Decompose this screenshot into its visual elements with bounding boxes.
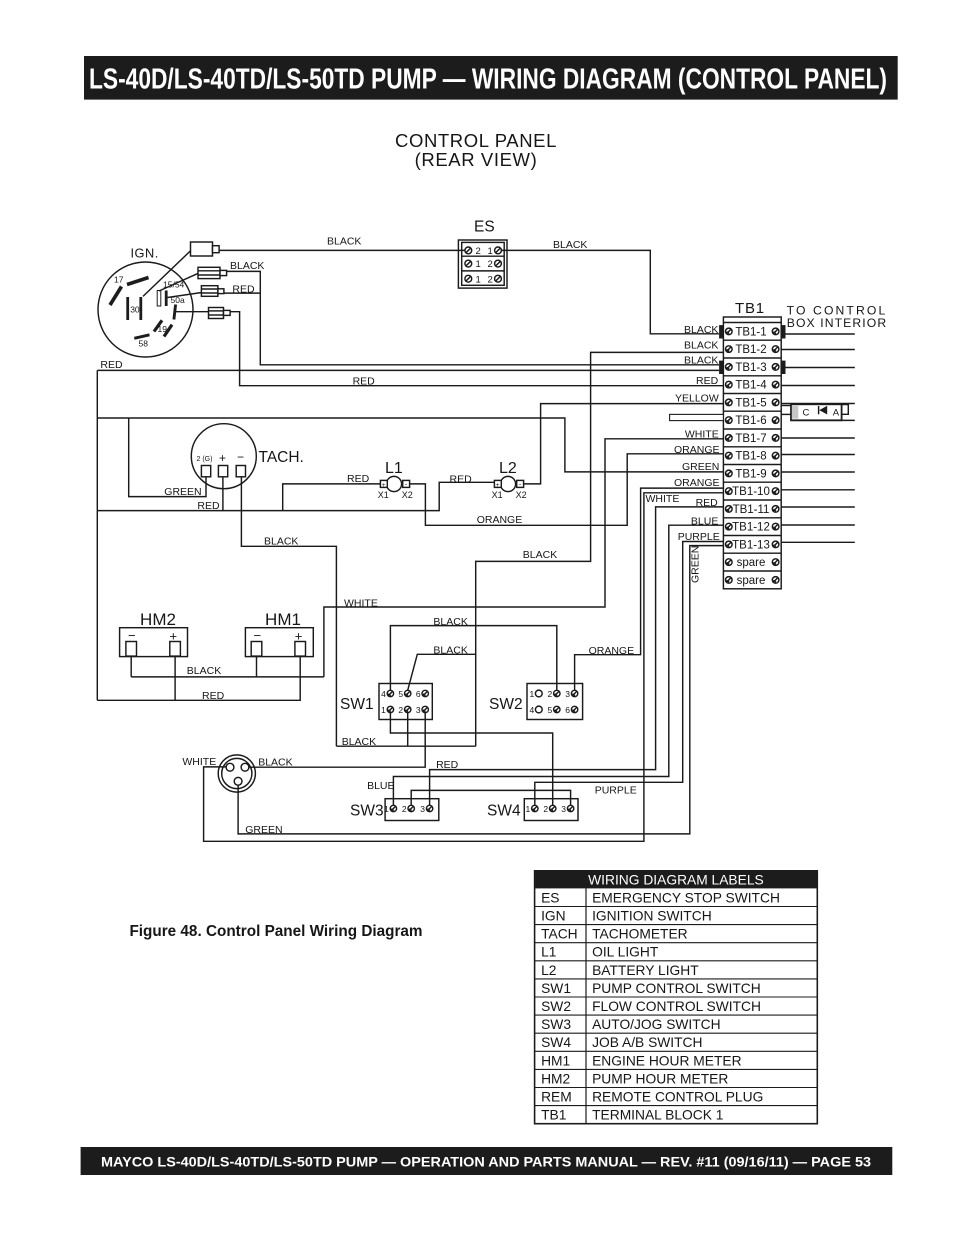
svg-text:TB1-8: TB1-8	[735, 451, 766, 463]
svg-text:WHITE: WHITE	[182, 756, 216, 768]
svg-text:SW2: SW2	[489, 696, 523, 713]
svg-text:CONTROL PANEL: CONTROL PANEL	[395, 130, 557, 151]
pump control switch SW1	[340, 684, 432, 720]
svg-text:L1: L1	[541, 945, 556, 960]
wire GREEN REM to TB1-13	[238, 546, 723, 834]
wire BLACK SW1 pin4 to SW2 pin2	[390, 626, 556, 691]
TB1-3 side tabs	[719, 361, 723, 374]
svg-text:LS-40D/LS-40TD/LS-50TD PUMP —: LS-40D/LS-40TD/LS-50TD PUMP — WIRING DIA…	[89, 64, 887, 96]
svg-text:L2: L2	[499, 460, 517, 477]
svg-text:WIRING DIAGRAM LABELS: WIRING DIAGRAM LABELS	[588, 873, 764, 888]
svg-text:TB1-9: TB1-9	[735, 469, 766, 481]
svg-text:ORANGE: ORANGE	[674, 444, 720, 456]
svg-text:X2: X2	[516, 490, 527, 500]
battery light L2	[492, 460, 527, 500]
svg-text:ES: ES	[474, 219, 495, 236]
subtitle CONTROL PANEL (REAR VIEW)	[395, 130, 557, 170]
svg-text:1: 1	[526, 804, 531, 814]
svg-text:TB1-3: TB1-3	[735, 362, 766, 374]
svg-text:BATTERY LIGHT: BATTERY LIGHT	[592, 963, 699, 978]
wire IGN 15/54 to lug2 (diagonal)	[159, 273, 198, 291]
svg-text:1: 1	[381, 705, 386, 715]
svg-text:1: 1	[488, 246, 493, 257]
wire WHITE TB1-7 to hour meters	[324, 439, 724, 677]
svg-text:4: 4	[381, 689, 386, 699]
svg-text:HM1: HM1	[541, 1053, 570, 1068]
wire BLACK REM to SW1 pin3	[249, 713, 425, 768]
wire BLACK SW1 pin2 stub	[407, 713, 409, 747]
svg-text:X2: X2	[402, 490, 413, 500]
contact 19 bar right	[164, 325, 172, 337]
svg-text:ORANGE: ORANGE	[477, 514, 523, 526]
svg-text:ORANGE: ORANGE	[589, 645, 635, 657]
svg-text:C: C	[803, 408, 810, 419]
contact 19 bar left	[154, 320, 162, 331]
terminal block TB1	[670, 300, 888, 589]
svg-text:ORANGE: ORANGE	[674, 477, 720, 489]
svg-text:FLOW CONTROL SWITCH: FLOW CONTROL SWITCH	[592, 999, 761, 1014]
svg-text:IGN: IGN	[541, 909, 566, 924]
svg-text:TB1-10: TB1-10	[732, 486, 770, 498]
svg-text:(REAR VIEW): (REAR VIEW)	[415, 149, 538, 170]
svg-text:HM2: HM2	[541, 1071, 570, 1086]
wire RED branch to L1 X1	[283, 484, 381, 511]
IGN body circle	[98, 262, 193, 357]
svg-text:3: 3	[416, 705, 421, 715]
wire WHITE REM to TB1	[204, 493, 724, 842]
svg-text:3: 3	[561, 804, 566, 814]
svg-text:6: 6	[565, 705, 570, 715]
svg-text:2: 2	[402, 804, 407, 814]
svg-text:19: 19	[158, 324, 168, 334]
svg-text:TB1-13: TB1-13	[732, 540, 770, 552]
TB1-6 bar wire	[670, 414, 724, 420]
svg-text:TB1: TB1	[541, 1108, 566, 1123]
svg-text:WHITE: WHITE	[646, 493, 680, 505]
svg-text:BLACK: BLACK	[258, 756, 292, 768]
svg-text:TB1-4: TB1-4	[735, 380, 767, 392]
wire GREEN TACH ground	[129, 418, 206, 497]
svg-text:BLACK: BLACK	[684, 355, 718, 367]
svg-text:TACHOMETER: TACHOMETER	[592, 927, 688, 942]
wire BLACK SW1 pin2 run	[336, 745, 475, 747]
svg-text:ENGINE HOUR METER: ENGINE HOUR METER	[592, 1053, 742, 1068]
diode module on TB1-5/TB1-6	[781, 404, 848, 420]
svg-text:2: 2	[543, 804, 548, 814]
svg-text:RED: RED	[436, 759, 459, 771]
svg-text:5: 5	[398, 689, 403, 699]
svg-text:BLACK: BLACK	[684, 324, 718, 336]
wire RED SW3 pin3 to TB1-11	[430, 507, 724, 805]
svg-text:Figure 48. Control Panel Wirin: Figure 48. Control Panel Wiring Diagram	[129, 923, 422, 940]
svg-text:PURPLE: PURPLE	[678, 531, 720, 543]
svg-text:RED: RED	[353, 375, 376, 387]
contact 58 bar	[134, 335, 149, 339]
svg-text:SW1: SW1	[340, 696, 374, 713]
contact top bar	[127, 278, 149, 285]
connector lug 1	[191, 242, 213, 256]
emergency stop switch ES	[458, 219, 507, 289]
connector lug 2	[198, 267, 220, 278]
bottom footer banner	[81, 1147, 893, 1175]
wire SW3 pin2 to SW4 pin3	[411, 790, 570, 805]
wire RED bus to TB1-3	[97, 369, 719, 371]
svg-text:2: 2	[476, 246, 481, 257]
svg-text:−: −	[128, 628, 136, 643]
wire SW1 pin1 to SW4 pin2	[390, 713, 552, 806]
wire RED bus vertical	[96, 370, 98, 700]
contact 50a bar	[174, 305, 176, 320]
svg-text:BLACK: BLACK	[523, 549, 557, 561]
svg-text:30: 30	[130, 305, 140, 315]
svg-text:2: 2	[488, 274, 493, 285]
svg-text:PUMP HOUR METER: PUMP HOUR METER	[592, 1071, 728, 1086]
job A/B switch SW4	[487, 799, 578, 821]
legend table WIRING DIAGRAM LABELS	[535, 871, 818, 1124]
svg-text:TB1-6: TB1-6	[735, 415, 766, 427]
svg-text:JOB A/B SWITCH: JOB A/B SWITCH	[592, 1035, 702, 1050]
svg-text:BLACK: BLACK	[230, 260, 264, 272]
svg-text:IGNITION SWITCH: IGNITION SWITCH	[592, 909, 712, 924]
svg-text:17: 17	[114, 275, 124, 285]
wire BLACK ES to TB1-1	[501, 250, 719, 333]
svg-text:1: 1	[476, 274, 481, 285]
svg-text:TB1: TB1	[735, 300, 765, 317]
TACH terminal squares	[201, 466, 210, 477]
svg-text:WHITE: WHITE	[685, 429, 719, 441]
svg-text:BLACK: BLACK	[264, 536, 298, 548]
svg-text:SW3: SW3	[350, 803, 384, 820]
wire BLUE SW3 pin1 to TB1-12	[393, 525, 723, 805]
svg-text:TB1-2: TB1-2	[735, 344, 766, 356]
wire BLACK SW1 pin5 branch	[408, 654, 476, 690]
svg-text:RED: RED	[232, 283, 255, 295]
wire RED lug3 junction	[224, 292, 260, 294]
svg-text:RED: RED	[100, 359, 123, 371]
svg-text:MAYCO LS-40D/LS-40TD/LS-50TD P: MAYCO LS-40D/LS-40TD/LS-50TD PUMP — OPER…	[101, 1155, 871, 1170]
svg-text:5: 5	[548, 705, 553, 715]
pump hour meter HM2	[120, 610, 188, 657]
svg-text:TACH: TACH	[541, 927, 578, 942]
svg-text:spare: spare	[737, 575, 766, 587]
svg-text:RED: RED	[202, 690, 225, 702]
svg-text:BLACK: BLACK	[433, 645, 467, 657]
wire BLACK lug1 to ES	[219, 249, 465, 251]
svg-text:RED: RED	[696, 375, 719, 387]
tachometer TACH	[191, 424, 304, 489]
wire BLACK TB1-2 trunk	[476, 352, 724, 746]
svg-text:BLACK: BLACK	[433, 616, 467, 628]
ES screws	[465, 247, 502, 282]
svg-text:BLACK: BLACK	[342, 736, 376, 748]
svg-text:BLACK: BLACK	[553, 239, 587, 251]
svg-text:L1: L1	[385, 460, 403, 477]
wire IGN 50a-bar to lug4	[176, 311, 209, 313]
svg-text:OIL LIGHT: OIL LIGHT	[592, 945, 659, 960]
svg-text:4: 4	[530, 705, 535, 715]
svg-text:HM1: HM1	[265, 610, 301, 629]
contact 15/54 solid bar	[165, 291, 168, 307]
svg-text:1: 1	[384, 804, 389, 814]
svg-text:A: A	[833, 408, 840, 419]
svg-text:+: +	[382, 482, 386, 489]
contact 30 bar right	[139, 297, 142, 320]
svg-text:EMERGENCY STOP SWITCH: EMERGENCY STOP SWITCH	[592, 890, 780, 905]
svg-text:GREEN: GREEN	[690, 546, 702, 583]
ignition switch IGN	[98, 242, 230, 357]
svg-text:BOX INTERIOR: BOX INTERIOR	[787, 316, 888, 330]
wire RED branch HM2 plus	[174, 656, 176, 700]
oil light L1	[378, 460, 413, 500]
svg-text:GREEN: GREEN	[164, 486, 201, 498]
contact 17 bar	[110, 287, 122, 306]
wire HM1 minus stub	[256, 656, 258, 677]
wire IGN 50a to lug3	[168, 293, 202, 298]
wire ORANGE L1 X2 to TB1-8	[410, 454, 724, 526]
connector lug 3	[201, 286, 218, 297]
svg-text:REM: REM	[541, 1090, 572, 1105]
svg-text:RED: RED	[696, 497, 719, 509]
svg-text:GREEN: GREEN	[245, 824, 282, 836]
svg-text:−: −	[254, 628, 262, 643]
svg-text:TB1-1: TB1-1	[735, 327, 766, 339]
svg-text:3: 3	[565, 689, 570, 699]
svg-text:AUTO/JOG SWITCH: AUTO/JOG SWITCH	[592, 1017, 721, 1032]
svg-text:HM2: HM2	[140, 610, 176, 629]
svg-text:GREEN: GREEN	[682, 461, 719, 473]
svg-text:X1: X1	[378, 490, 389, 500]
svg-text:TB1-7: TB1-7	[735, 433, 766, 445]
wire BLACK hour meter minus bus	[131, 676, 324, 678]
wire HM2 minus stub	[130, 656, 132, 677]
contact 30 bar left	[126, 297, 129, 320]
svg-text:BLACK: BLACK	[187, 665, 221, 677]
svg-text:3: 3	[420, 804, 425, 814]
svg-text:2: 2	[548, 689, 553, 699]
connector lug 4	[209, 308, 224, 319]
svg-text:SW2: SW2	[541, 999, 571, 1014]
svg-text:BLACK: BLACK	[327, 236, 361, 248]
svg-text:RED: RED	[197, 500, 220, 512]
auto/jog switch SW3	[350, 799, 439, 821]
wire ORANGE SW2 pin3 to TB1-10	[575, 488, 724, 690]
svg-text:L2: L2	[541, 963, 556, 978]
svg-text:ES: ES	[541, 890, 559, 905]
svg-text:+: +	[219, 451, 226, 465]
svg-text:1: 1	[476, 259, 481, 270]
svg-text:TACH.: TACH.	[259, 449, 304, 466]
remote control plug REM	[218, 755, 255, 792]
svg-text:X1: X1	[492, 490, 503, 500]
svg-text:2: 2	[398, 705, 403, 715]
svg-text:+: +	[496, 482, 500, 489]
svg-text:REMOTE CONTROL PLUG: REMOTE CONTROL PLUG	[592, 1090, 763, 1105]
svg-text:2 (G): 2 (G)	[197, 456, 213, 463]
wire RED branch to TACH plus	[222, 477, 224, 511]
svg-text:spare: spare	[737, 557, 766, 569]
contact 15/54 hollow bar	[157, 291, 161, 307]
svg-text:−: −	[237, 450, 244, 464]
svg-text:2: 2	[488, 259, 493, 270]
svg-text:58: 58	[139, 339, 149, 349]
svg-text:IGN.: IGN.	[131, 246, 159, 261]
svg-text:TB1-12: TB1-12	[732, 522, 770, 534]
wire RED bottom to HM1 plus	[97, 656, 300, 700]
wire GREEN to TB1-9	[97, 418, 723, 472]
svg-text:RED: RED	[347, 473, 370, 485]
wire BLACK lug2 to TB1-3	[227, 271, 719, 364]
svg-text:BLUE: BLUE	[691, 515, 718, 527]
svg-text:BLACK: BLACK	[684, 340, 718, 352]
wire RED lug4 to TB1-4	[230, 312, 723, 386]
svg-text:YELLOW: YELLOW	[675, 392, 719, 404]
wire RED bus to L2 X1	[97, 482, 494, 510]
flow control switch SW2	[489, 684, 583, 720]
svg-text:SW3: SW3	[541, 1017, 571, 1032]
wires TB1 to control box interior	[786, 333, 855, 335]
svg-text:WHITE: WHITE	[344, 598, 378, 610]
svg-text:RED: RED	[450, 473, 473, 485]
svg-text:TB1-11: TB1-11	[733, 504, 770, 516]
top title banner	[84, 56, 898, 100]
svg-text:SW4: SW4	[541, 1035, 571, 1050]
wire BLACK TACH minus	[241, 477, 336, 746]
wire YELLOW L2 X2 to TB1-5	[524, 404, 724, 484]
wire IGN 30 to lug1 (diagonal)	[143, 251, 191, 297]
engine hour meter HM1	[245, 610, 313, 657]
svg-text:6: 6	[416, 689, 421, 699]
svg-text:SW4: SW4	[487, 803, 521, 820]
TB1-1 side tabs	[719, 325, 723, 338]
svg-text:BLUE: BLUE	[367, 780, 394, 792]
svg-text:TERMINAL BLOCK 1: TERMINAL BLOCK 1	[592, 1108, 723, 1123]
svg-text:1: 1	[530, 689, 535, 699]
svg-text:SW1: SW1	[541, 981, 571, 996]
svg-text:TB1-5: TB1-5	[735, 398, 766, 410]
svg-text:PUMP CONTROL SWITCH: PUMP CONTROL SWITCH	[592, 981, 761, 996]
svg-text:PURPLE: PURPLE	[595, 784, 637, 796]
wire PURPLE SW4 pin1 to TB1-13	[535, 542, 724, 806]
